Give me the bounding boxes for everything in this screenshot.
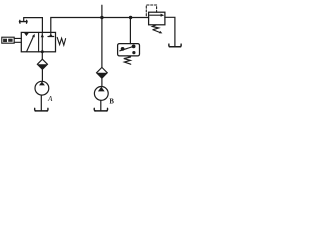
valve V1 spring W [57,37,65,45]
pump B [94,87,108,101]
valve V1 actuator push rod [14,38,21,42]
check valve CV-B [97,67,108,78]
valve V1 right cell blocked port mark [48,32,54,36]
valve V1 right cell through path with up arrow [41,32,44,51]
vent tank symbol top-left [20,18,28,24]
wire valve top-right port to pressure bus [51,18,149,33]
check valve CV-A [37,59,47,69]
node valve bottom port [41,50,44,53]
wire check A to pump A [41,69,43,81]
pump A [35,81,49,95]
tank under pump B [94,108,107,111]
tank under relief valve [169,44,181,47]
valve V1 body [21,32,55,51]
valve V1 left cell blocked port mark [24,33,29,36]
relief valve pilot dashed line [146,5,156,16]
wire pump A to tank [40,95,42,111]
relief valve RV body [149,12,165,25]
tank under pump A [35,108,48,111]
node J1 junction pump B line on bus [100,16,103,19]
wire check B to pump B [101,78,103,86]
pressure switch PS box [118,44,140,56]
wire bus to pressure switch [129,18,131,44]
wire pump B riser (stub above bus down to check valve) [101,5,103,67]
relief valve spring and adjust arrow [152,25,162,34]
valve V1 actuator box [2,37,14,43]
valve V1 left cell flow arrow [27,34,35,52]
wire relief valve outlet to tank [165,17,175,46]
pressure switch spring zigzag [124,56,131,64]
wire vent to valve top-left port [24,18,42,33]
svg-text:B: B [109,99,114,106]
wire valve bottom port to check valve A [41,52,43,59]
node J2 junction pressure switch tap [129,16,132,19]
svg-text:A: A [47,95,53,103]
wire pump B to tank [100,100,102,110]
